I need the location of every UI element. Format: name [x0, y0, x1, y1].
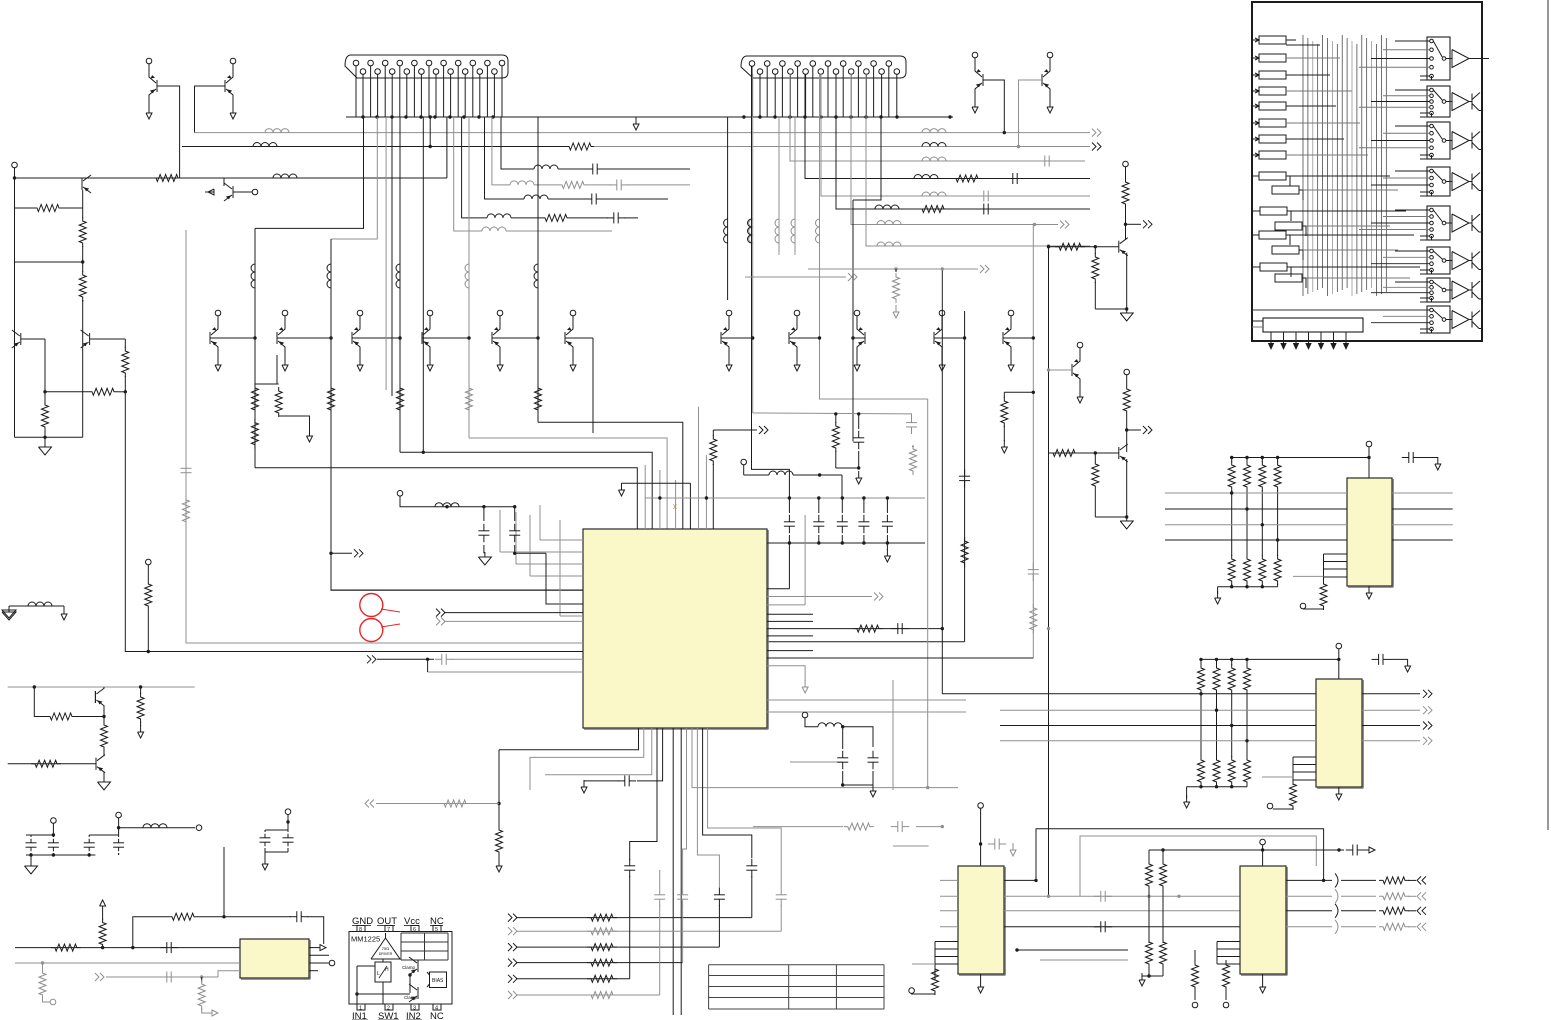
resistor R40	[103, 717, 105, 723]
wire elbow res x1004	[1004, 391, 1033, 393]
resistor R22	[587, 975, 617, 982]
net chevron y621	[436, 617, 440, 625]
capacitor C17 on x1034	[1032, 563, 1034, 570]
capacitor C8	[483, 507, 485, 521]
wire J1 row y218	[462, 117, 487, 218]
junction diag U4	[1199, 692, 1202, 695]
wire U1 right pin y641	[767, 641, 965, 643]
terminal T6	[1223, 1002, 1229, 1008]
inductor L7	[914, 175, 938, 179]
inductor L4	[922, 143, 946, 147]
resistor R1	[152, 175, 182, 182]
connector J1 pin 19	[485, 60, 491, 66]
connector J2 pin 11	[825, 61, 831, 67]
resistor R47a	[1055, 243, 1085, 250]
ground G8	[1262, 980, 1264, 987]
wire U2 in row y977	[106, 976, 218, 978]
wire right column x751	[752, 66, 790, 498]
arrow R38	[202, 1008, 212, 1013]
wire right column x1033	[1032, 225, 1034, 659]
wire J1 row y146 feed	[429, 117, 431, 147]
inductor L13	[143, 824, 167, 828]
inductor column L727	[724, 219, 728, 243]
connector J2 pin 1	[749, 61, 755, 67]
wire x83 lower	[82, 300, 84, 437]
register output arrow A5	[1320, 336, 1322, 345]
capacitor C2	[1006, 178, 1013, 180]
resistor R18	[587, 914, 617, 921]
delay resistor box DR1	[1259, 36, 1286, 44]
wire U6 lower feeds	[1017, 949, 1128, 951]
wire U3 small feed	[1293, 575, 1324, 577]
wire feedback right	[307, 917, 324, 944]
connector J1 pin 1	[353, 60, 359, 66]
register output arrow A7	[1345, 336, 1347, 345]
wire left net y262	[15, 261, 83, 263]
connector J1 pin 15	[455, 60, 461, 66]
wire U5-U6 row1	[1004, 879, 1036, 881]
capacitor C15	[891, 628, 898, 630]
arrow C30 gnd	[1437, 457, 1439, 464]
wire SW3 ground stub	[1420, 155, 1432, 159]
inductor column L255	[251, 264, 255, 288]
wire DS5 link	[1286, 235, 1290, 245]
delay resistor box DS2	[1272, 186, 1299, 194]
grid link h4	[1286, 90, 1352, 92]
output buffer BUF6	[1446, 260, 1452, 262]
resistor bank U3 bottom	[1228, 555, 1235, 585]
terminal T9	[50, 999, 56, 1005]
svg-text:NC: NC	[430, 1011, 444, 1020]
wire U1 left pin y564	[516, 563, 583, 565]
wire U4 small pins	[1293, 756, 1316, 758]
resistor column R331	[328, 384, 335, 414]
svg-text:SW1: SW1	[378, 1011, 399, 1020]
wire base col x45	[44, 339, 46, 392]
transistor Q19	[1118, 447, 1120, 459]
capacitor C14	[886, 498, 888, 513]
capacitor C3	[977, 195, 984, 197]
wire left column x469	[468, 117, 470, 438]
terminal T13	[196, 825, 202, 831]
grid link h7	[1286, 138, 1344, 140]
pin 5 box	[433, 926, 441, 932]
wire row y246 from J2	[866, 74, 1090, 246]
grid link h8	[1286, 154, 1368, 156]
net chevron stage1	[1126, 223, 1142, 225]
wire SW4 inputs	[1395, 170, 1430, 172]
wire Q16 base	[934, 337, 965, 339]
capacitor C29	[1094, 926, 1101, 928]
output buffer BUF2	[1446, 101, 1452, 103]
wire row3 vertical	[718, 905, 720, 947]
transistor Q6	[1041, 74, 1043, 86]
wire BUF8 output transistor	[1469, 319, 1472, 321]
wire J1 row y199	[485, 117, 525, 199]
ground G11	[1186, 787, 1188, 798]
ground G15	[2, 610, 16, 618]
capacitor C6	[911, 416, 913, 423]
inductor L1	[265, 129, 289, 133]
IC U1 body	[583, 529, 767, 728]
resistor R19	[587, 928, 617, 935]
wire J1 deep verticals	[385, 117, 387, 390]
resistor R31	[1225, 960, 1227, 962]
grid link h11	[1291, 210, 1406, 212]
capacitor C16 on x964	[964, 469, 966, 476]
capacitor C39	[264, 830, 266, 832]
wire BUF6 output transistor	[1469, 260, 1472, 262]
open arrow on bus y117	[635, 117, 637, 124]
terminal T2	[397, 491, 403, 497]
wire J2 pin drops	[751, 66, 753, 117]
grid link h12	[1306, 225, 1390, 227]
capacitor C34	[160, 976, 167, 978]
grid link h3	[1286, 74, 1330, 76]
resistor R21	[587, 959, 617, 966]
delay resistor box DR6	[1259, 119, 1286, 127]
junction x1048 y628	[1047, 627, 1050, 630]
wire right column x819	[820, 74, 928, 399]
output buffer BUF8	[1446, 319, 1452, 321]
resistor R3	[918, 206, 948, 213]
wire U5 small feed	[912, 963, 935, 965]
wire Q24 base	[1049, 246, 1119, 248]
connector J2 pin 19	[886, 61, 892, 67]
ground G7	[1142, 975, 1163, 977]
connector J2 pin 20	[894, 69, 900, 75]
wire stair to IC x538	[538, 422, 683, 529]
IC U2 body	[240, 939, 309, 978]
connector J2 pin 13	[840, 61, 846, 67]
wire Q6 base drop	[1019, 80, 1043, 147]
wire Q22 base	[21, 338, 45, 340]
wire clamp to pin3	[409, 984, 411, 993]
driver triangle	[371, 938, 400, 959]
IC U5 body	[958, 866, 1004, 974]
inductor L2	[922, 129, 946, 133]
wire U3 top rail	[1232, 457, 1369, 459]
resistor R12 on x964	[961, 537, 968, 567]
arrow C31 gnd	[1407, 659, 1409, 666]
resistor R5	[251, 419, 258, 449]
wire J1 row y185	[492, 117, 510, 185]
connector J1 pin 6	[389, 69, 395, 75]
net chevron row bottom 3	[508, 943, 512, 951]
wire row4 vertical	[682, 905, 684, 963]
terminal T14	[285, 809, 291, 815]
wire row y193 from J2	[821, 74, 1090, 196]
wire DS3 link	[1287, 211, 1291, 221]
resistor column R255	[252, 384, 259, 414]
wire left vertical x14	[14, 178, 16, 262]
wire LH to pin2	[382, 982, 384, 1004]
terminal T15	[741, 459, 747, 465]
transistor Q1	[156, 80, 158, 92]
transistor Q13	[720, 332, 722, 344]
net chevron x371 y659	[367, 655, 371, 663]
capacitor C19	[659, 888, 661, 895]
delay resistor box DR3	[1259, 71, 1286, 79]
connector J2 pin 7	[795, 61, 801, 67]
capacitor C4	[977, 208, 984, 210]
wire right column x752	[752, 74, 754, 413]
connector J1 pin 17	[470, 60, 476, 66]
pin 3 box	[411, 1004, 419, 1010]
resistor R42	[140, 687, 142, 694]
wire bottom pin exit left 3	[545, 728, 652, 775]
wire DR3 output	[1286, 74, 1296, 76]
capacitor C5	[858, 414, 860, 429]
inductor column L469	[465, 264, 469, 288]
inductor L11	[877, 242, 901, 246]
svg-text:L: L	[377, 971, 380, 977]
resistor R39	[46, 713, 76, 720]
switch box SW1	[1427, 37, 1450, 80]
grid link h14	[1303, 249, 1398, 251]
capacitor C9	[514, 507, 516, 521]
wire right column x795	[794, 117, 796, 255]
wire net y687	[8, 686, 195, 688]
terminal T11	[51, 818, 57, 824]
IC U6 top terminal	[1260, 839, 1266, 845]
sub ladder Q8	[255, 383, 279, 385]
register output arrow A1	[1270, 336, 1272, 345]
register output arrow A3	[1295, 336, 1297, 345]
net chevron x851 y277	[745, 276, 846, 278]
svg-text:7: 7	[387, 927, 390, 933]
inductor L12	[435, 503, 459, 507]
switch box SW8	[1427, 306, 1450, 333]
inductor column L819	[816, 219, 820, 243]
delay resistor box DS7	[1260, 263, 1287, 271]
resistor R35	[42, 963, 44, 970]
wire SW3 inputs	[1395, 125, 1430, 127]
wire DS1 link	[1286, 176, 1290, 186]
wire U1 left pin y604 LC net	[546, 553, 583, 604]
wire U1 left pin y612	[444, 612, 583, 614]
wire U1 right pin stubs	[767, 613, 813, 615]
wire U5-U6 row2	[1004, 895, 1240, 897]
connector J2 pin 5	[780, 61, 786, 67]
wire Q18 base	[1049, 369, 1073, 371]
terminal and resistor x148	[146, 559, 152, 565]
net chevron stub x358 y553	[331, 552, 352, 554]
wire cap bank bottom rail	[767, 542, 925, 544]
capacitor C33	[290, 916, 297, 918]
inductor column L331	[327, 264, 331, 288]
switch box SW5	[1427, 206, 1450, 240]
arrow R42	[140, 725, 142, 732]
ground G14	[264, 852, 266, 858]
wire U6 right rows to cable	[1286, 879, 1332, 881]
wire Q11 base	[492, 337, 538, 339]
capacitor C23	[780, 888, 782, 895]
wire Q8 base	[277, 337, 331, 339]
resistor R13 on x1034	[1030, 604, 1037, 634]
ground G6	[980, 980, 982, 987]
grid link h15	[1291, 266, 1420, 268]
wire U1 right pin y712	[767, 711, 966, 713]
net chevron y430	[713, 429, 757, 431]
terminal T4	[909, 988, 915, 994]
wire U1 left pin y659	[377, 658, 434, 660]
wire bottom row 1	[516, 917, 752, 919]
wire cap bank top rail	[645, 497, 925, 499]
wire row5 vertical	[629, 876, 631, 979]
clamp transistor upper	[417, 960, 419, 972]
inductor column L752	[749, 219, 753, 243]
resistor R37	[168, 913, 198, 920]
resistor column R400	[397, 384, 404, 414]
grid link h6	[1286, 122, 1360, 124]
terminal T1	[12, 162, 18, 168]
wire stair to IC x331	[331, 529, 583, 590]
junction x148 y651	[147, 650, 150, 653]
resistor R44b	[44, 392, 46, 402]
ground G9	[1217, 587, 1219, 594]
connector J1 pin 10	[419, 69, 425, 75]
ground G13	[30, 855, 32, 862]
terminal T8	[1267, 803, 1273, 809]
resistor R30	[1194, 950, 1196, 962]
wire DS4 link	[1302, 226, 1306, 236]
clamp transistor lower	[417, 987, 419, 999]
resistor R15	[1094, 453, 1096, 460]
connector J1 pin 20	[492, 69, 498, 75]
wire U1 left pin y576	[530, 575, 583, 577]
capacitor C13	[863, 498, 865, 513]
resistor R9 on x186	[183, 496, 190, 526]
wire U2 input row y963	[15, 962, 240, 964]
net chevron y612	[436, 609, 440, 617]
wire bottom pin straight 2	[680, 728, 682, 1015]
resistor R38	[201, 977, 203, 982]
resistor R2	[952, 175, 982, 182]
wire bottom row 5	[516, 978, 630, 980]
wire Q5 base drop	[983, 80, 1004, 133]
connector J2 pin 8	[803, 69, 809, 75]
connector J2 pin 9	[810, 61, 816, 67]
resistor R32	[1320, 580, 1327, 610]
wire J1 pin drops	[355, 66, 357, 117]
resistor R36 vertical	[102, 906, 104, 913]
wire SW2 ground stub	[1420, 113, 1432, 117]
delay resistor box DS3	[1260, 207, 1287, 215]
resistor R11	[853, 625, 883, 632]
transistor Q18	[1071, 364, 1073, 376]
output buffer BUF5	[1446, 222, 1452, 224]
capacitor C30	[1402, 457, 1409, 459]
grid link h2	[1286, 57, 1340, 59]
wire y826 net	[753, 826, 843, 828]
wire U4 bottom rail	[1187, 786, 1247, 788]
wire DS1 input	[1252, 175, 1259, 177]
wire bottom row 2	[516, 930, 781, 932]
capacitor C7 on x186	[185, 461, 187, 468]
wire left column x255	[254, 228, 256, 467]
wire U1 left pin y672	[428, 671, 583, 673]
wire DR4 input	[1252, 90, 1259, 92]
wire row y161 from J2	[790, 74, 1085, 161]
junction x331 y553	[329, 552, 332, 555]
wire U1 right pin y588 to cap rail	[767, 588, 789, 590]
resistor R41	[31, 760, 61, 767]
capacitor C27	[988, 843, 995, 845]
delay resistor box DS1	[1259, 172, 1286, 180]
wire DS3 input	[1252, 210, 1260, 212]
transistor Q21	[95, 758, 97, 770]
resistor R8	[895, 269, 897, 272]
wire J1 row y231	[454, 117, 482, 231]
wire J1 left step to col331	[331, 117, 377, 239]
resistor R47b	[1094, 247, 1096, 254]
net chevron row bottom 1	[508, 914, 512, 922]
transistor Q16	[933, 332, 935, 344]
resistor bank U3 top	[1231, 458, 1233, 463]
wire DR3 input	[1252, 74, 1259, 76]
wire stair to IC x400	[400, 452, 652, 529]
wire DR5 output	[1286, 105, 1296, 107]
capacitor C31	[1372, 658, 1379, 660]
wire DR1 input	[1252, 39, 1259, 41]
wire Q17 base	[1003, 337, 1033, 339]
wire SW4 ground stub	[1420, 192, 1432, 196]
wire U1 left pin y621	[444, 620, 583, 622]
capacitor C42	[618, 780, 625, 782]
IC U5 top terminal	[978, 803, 984, 809]
ground G3	[886, 543, 888, 550]
wire DR6 input	[1252, 122, 1259, 124]
wire Q7 base	[210, 337, 255, 339]
connector J1 pin 12	[433, 69, 439, 75]
transistor Q12	[564, 332, 566, 344]
net chevron x984 y269	[808, 268, 978, 270]
switch box SW3	[1427, 122, 1450, 159]
connector J1 pin 3	[368, 60, 374, 66]
capacitor C24	[842, 751, 844, 758]
wire U1 right pin y665 arrow	[767, 666, 805, 681]
wire x499 drop	[498, 750, 500, 827]
svg-text:BIAS: BIAS	[432, 978, 444, 984]
register output arrow A2	[1283, 336, 1285, 345]
switch box SW2	[1427, 86, 1450, 117]
terminal T7	[1300, 603, 1306, 609]
wire stair to IC x469	[469, 438, 667, 529]
resistor R33	[1290, 780, 1297, 810]
resistor bank U4 bottom	[1198, 756, 1205, 786]
wire internal gnd	[357, 993, 410, 995]
IC U3 top terminal	[1366, 441, 1372, 447]
wire bottom row 3	[516, 946, 719, 948]
svg-text:5: 5	[435, 927, 438, 933]
capacitor C35	[30, 835, 32, 837]
transistor Q3	[81, 178, 83, 190]
resistor R23	[587, 992, 617, 999]
connector J1 pin 16	[462, 69, 468, 75]
wire SW6 ground stub	[1420, 270, 1432, 274]
capacitor C1	[1038, 160, 1045, 162]
net chevron row y224	[1060, 221, 1064, 229]
wire BUF2 output transistor	[1469, 101, 1472, 103]
wire join y468	[836, 467, 859, 469]
wire SW8 ground stub	[1420, 329, 1432, 333]
svg-text:6: 6	[413, 927, 416, 933]
connector J2 pin 6	[788, 69, 794, 75]
svg-text:MM1225: MM1225	[351, 935, 380, 944]
wire bottom pin cap gnd	[637, 728, 663, 781]
wire tri to LH	[382, 959, 384, 962]
